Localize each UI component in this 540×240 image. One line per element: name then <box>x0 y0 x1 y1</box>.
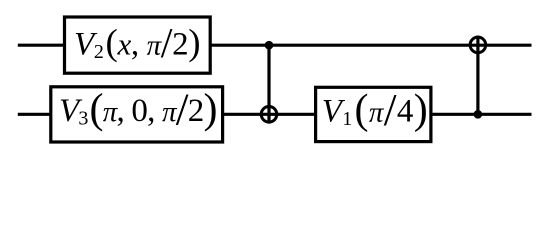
wire CNOT1 vertical (control q0 to target q1) <box>267 45 270 123</box>
gate V2 box <box>65 17 211 73</box>
wire q1 (bottom qubit wire) <box>18 113 532 116</box>
control dot CNOT2 on q1 <box>474 110 483 119</box>
gate V3 box <box>51 87 223 142</box>
control dot CNOT1 on q0 <box>265 41 274 50</box>
wire CNOT2 vertical (target q0 to control q1) <box>476 36 479 115</box>
gate V1 box <box>316 87 431 141</box>
svg-text:V2(x, π/2): V2(x, π/2) <box>74 21 201 67</box>
CNOT1 target circle on q1 <box>261 107 277 123</box>
CNOT2 target circle on q0 <box>470 37 486 53</box>
wire q0 (top qubit wire) <box>18 44 532 47</box>
